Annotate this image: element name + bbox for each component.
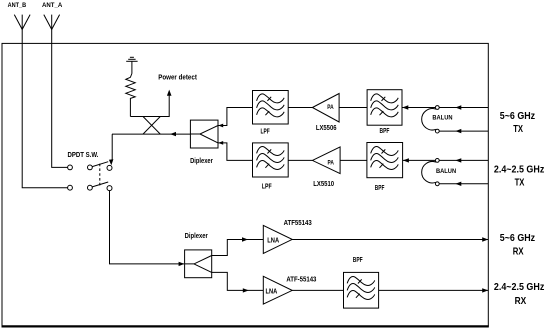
wire TX diplexer to LPF2 [218,143,253,161]
filter LPF2 (2.4-2.5 GHz TX low-pass) [253,143,289,177]
arrow toward coupler [170,132,176,136]
svg-text:BALUN: BALUN [432,114,453,121]
wire TX diplexer to LPF1 [218,108,253,126]
svg-text:TX: TX [513,124,523,135]
svg-text:PA: PA [328,159,335,166]
wire LNA1 to border (5~6 GHz RX out) [292,239,488,241]
svg-text:Power detect: Power detect [158,72,197,81]
wire LPF1 to PA1 [288,107,312,109]
svg-text:BPF: BPF [353,257,363,264]
svg-text:ANT_A: ANT_A [42,2,63,9]
svg-text:Diplexer: Diplexer [185,233,208,240]
switch DPDT S.W. [68,162,112,191]
directional coupler (bowtie) [143,117,160,135]
wire RX diplexer to LNA2 [212,272,264,290]
svg-text:TX: TX [515,178,525,189]
diplexer (TX) [190,120,223,148]
wire antenna line (coupler to TX diplexer) [112,133,190,135]
svg-text:ATF-55143: ATF-55143 [286,276,316,283]
svg-text:PA: PA [327,104,334,111]
svg-text:RX: RX [513,247,524,258]
resistor (power detect termination) [126,74,135,117]
filter LPF1 (5-6 GHz TX low-pass) [253,91,289,125]
antenna ANT_B [14,15,30,30]
svg-text:LPF: LPF [262,184,272,191]
ground [126,57,137,73]
wire RX BPF to border (2.4~2.5 GHz RX out) [379,289,489,291]
arrow into RX diplexer [179,262,185,266]
wire coupler to switch (TX feed, arrow down) [109,134,114,165]
arrow into BPF1 [402,105,408,109]
svg-text:5~6 GHz: 5~6 GHz [500,233,535,244]
wire LPF2 to PA2 [288,159,312,161]
svg-text:2.4~2.5 GHz: 2.4~2.5 GHz [494,282,544,293]
wire balun2 to BPF2 [403,159,436,161]
module boundary box [2,43,489,326]
wire border to balun1 top [439,107,488,109]
wire border to balun2 bottom [439,183,488,185]
amplifier LNA2 ATF-55143 [263,276,292,304]
svg-text:RX: RX [515,296,527,307]
balun (5-6 GHz TX) [422,106,453,133]
wire balun1 to BPF1 [402,107,436,109]
arrow into BPF2 [403,158,409,162]
svg-text:BPF: BPF [375,185,385,192]
wire border to balun2 top [439,159,488,161]
wire LNA2 to RX BPF [292,289,343,291]
filter BPF2 (2.4-2.5 GHz TX band-pass) [367,143,403,178]
svg-text:BALUN: BALUN [436,168,457,175]
diplexer (RX) [185,250,212,278]
filter BPF1 (5-6 GHz TX band-pass) [367,90,402,126]
power detect arrow [167,90,172,96]
amplifier LNA1 ATF55143 [263,225,292,253]
wire border to balun1 bottom [439,130,488,132]
wire RX diplexer to LNA1 [212,240,264,256]
amplifier PA2 LX5510 [312,147,340,174]
svg-text:LNA: LNA [266,289,278,296]
filter BPF (2.4-2.5 GHz RX band-pass) [344,272,379,308]
svg-text:BPF: BPF [380,128,390,135]
svg-text:LPF: LPF [261,129,271,136]
svg-text:LX5506: LX5506 [316,125,337,132]
wire switch to RX diplexer [110,191,184,264]
wire ANT_A to switch upper-left contact [52,29,68,167]
svg-text:DPDT S.W.: DPDT S.W. [68,152,99,159]
svg-text:ANT_B: ANT_B [8,2,27,9]
svg-text:Diplexer: Diplexer [190,158,213,165]
svg-text:2.4~2.5 GHz: 2.4~2.5 GHz [494,165,544,176]
wire PA2 to BPF2 [340,159,367,161]
svg-text:ATF55143: ATF55143 [284,220,312,227]
amplifier PA1 LX5506 [312,94,339,123]
arrow toward LNA1 [242,237,248,241]
wire PA1 to BPF1 [339,107,367,109]
arrow toward LNA2 [243,288,249,292]
svg-text:LX5510: LX5510 [313,181,334,188]
antenna ANT_A [44,15,60,30]
svg-text:LNA: LNA [267,237,279,244]
wire resistor to power-detect tap [130,96,169,117]
balun (2.4-2.5 GHz TX) [422,159,457,186]
svg-text:5~6 GHz: 5~6 GHz [500,111,535,122]
wire ANT_B to switch lower-left contact [22,29,67,187]
